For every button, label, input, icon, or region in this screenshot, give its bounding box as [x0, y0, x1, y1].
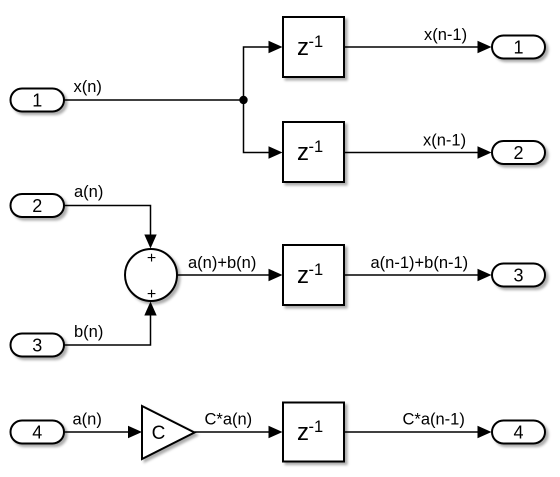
output port 1 [492, 36, 545, 59]
output port 3 [492, 264, 545, 287]
svg-text:-1: -1 [309, 138, 324, 156]
input port 3 [11, 334, 65, 357]
svg-text:2: 2 [32, 196, 42, 216]
output port 2 [492, 141, 545, 164]
junction node [239, 96, 247, 104]
wire branch down to unit delay 2 [244, 100, 283, 159]
svg-text:C: C [152, 423, 166, 444]
input port 2 [11, 194, 65, 217]
svg-text:-1: -1 [309, 261, 324, 279]
wire from input 1 to junction [64, 99, 244, 101]
svg-text:3: 3 [513, 265, 523, 285]
svg-text:2: 2 [513, 143, 523, 163]
input port 4 [11, 421, 65, 444]
wire branch up to unit delay 1 [244, 41, 283, 100]
wire gain to unit delay 4 [195, 426, 283, 438]
unit delay block 2 (z^-1) [283, 122, 344, 182]
svg-text:z: z [297, 419, 309, 446]
svg-text:x(n-1): x(n-1) [424, 26, 467, 44]
svg-text:b(n): b(n) [74, 323, 103, 341]
svg-text:+: + [147, 250, 156, 267]
unit delay block 4 (z^-1) [283, 403, 344, 462]
svg-text:C*a(n): C*a(n) [205, 411, 253, 429]
output port 4 [492, 421, 545, 444]
input port 1 [11, 89, 65, 112]
wire unit delay 2 to output 2 [344, 146, 492, 158]
unit delay block 3 (z^-1) [283, 245, 344, 305]
wire from input 2 down to sum [64, 206, 157, 249]
svg-text:z: z [297, 262, 309, 289]
svg-text:z: z [297, 34, 309, 61]
svg-text:4: 4 [32, 422, 42, 442]
wire unit delay 3 to output 3 [344, 269, 492, 281]
svg-text:x(n-1): x(n-1) [423, 132, 466, 150]
svg-text:+: + [147, 286, 156, 303]
wire input 4 to gain [64, 426, 142, 438]
svg-text:a(n): a(n) [74, 183, 103, 201]
wire from input 3 up to sum [64, 302, 157, 346]
svg-text:4: 4 [513, 422, 523, 442]
svg-text:-1: -1 [309, 33, 324, 51]
wire sum to unit delay 3 [177, 269, 283, 281]
svg-text:a(n)+b(n): a(n)+b(n) [188, 254, 256, 272]
svg-text:C*a(n-1): C*a(n-1) [403, 411, 465, 429]
unit delay block 1 (z^-1) [283, 17, 344, 77]
wire unit delay 4 to output 4 [344, 426, 492, 438]
svg-text:x(n): x(n) [74, 78, 102, 96]
svg-text:z: z [297, 139, 309, 166]
svg-text:3: 3 [32, 335, 42, 355]
gain block C [142, 406, 195, 459]
svg-text:a(n): a(n) [73, 411, 102, 429]
sum block [125, 249, 177, 303]
svg-text:1: 1 [32, 90, 42, 110]
svg-text:1: 1 [513, 37, 523, 57]
wire unit delay 1 to output 1 [344, 41, 492, 53]
svg-text:-1: -1 [309, 418, 324, 436]
svg-text:a(n-1)+b(n-1): a(n-1)+b(n-1) [371, 254, 469, 272]
